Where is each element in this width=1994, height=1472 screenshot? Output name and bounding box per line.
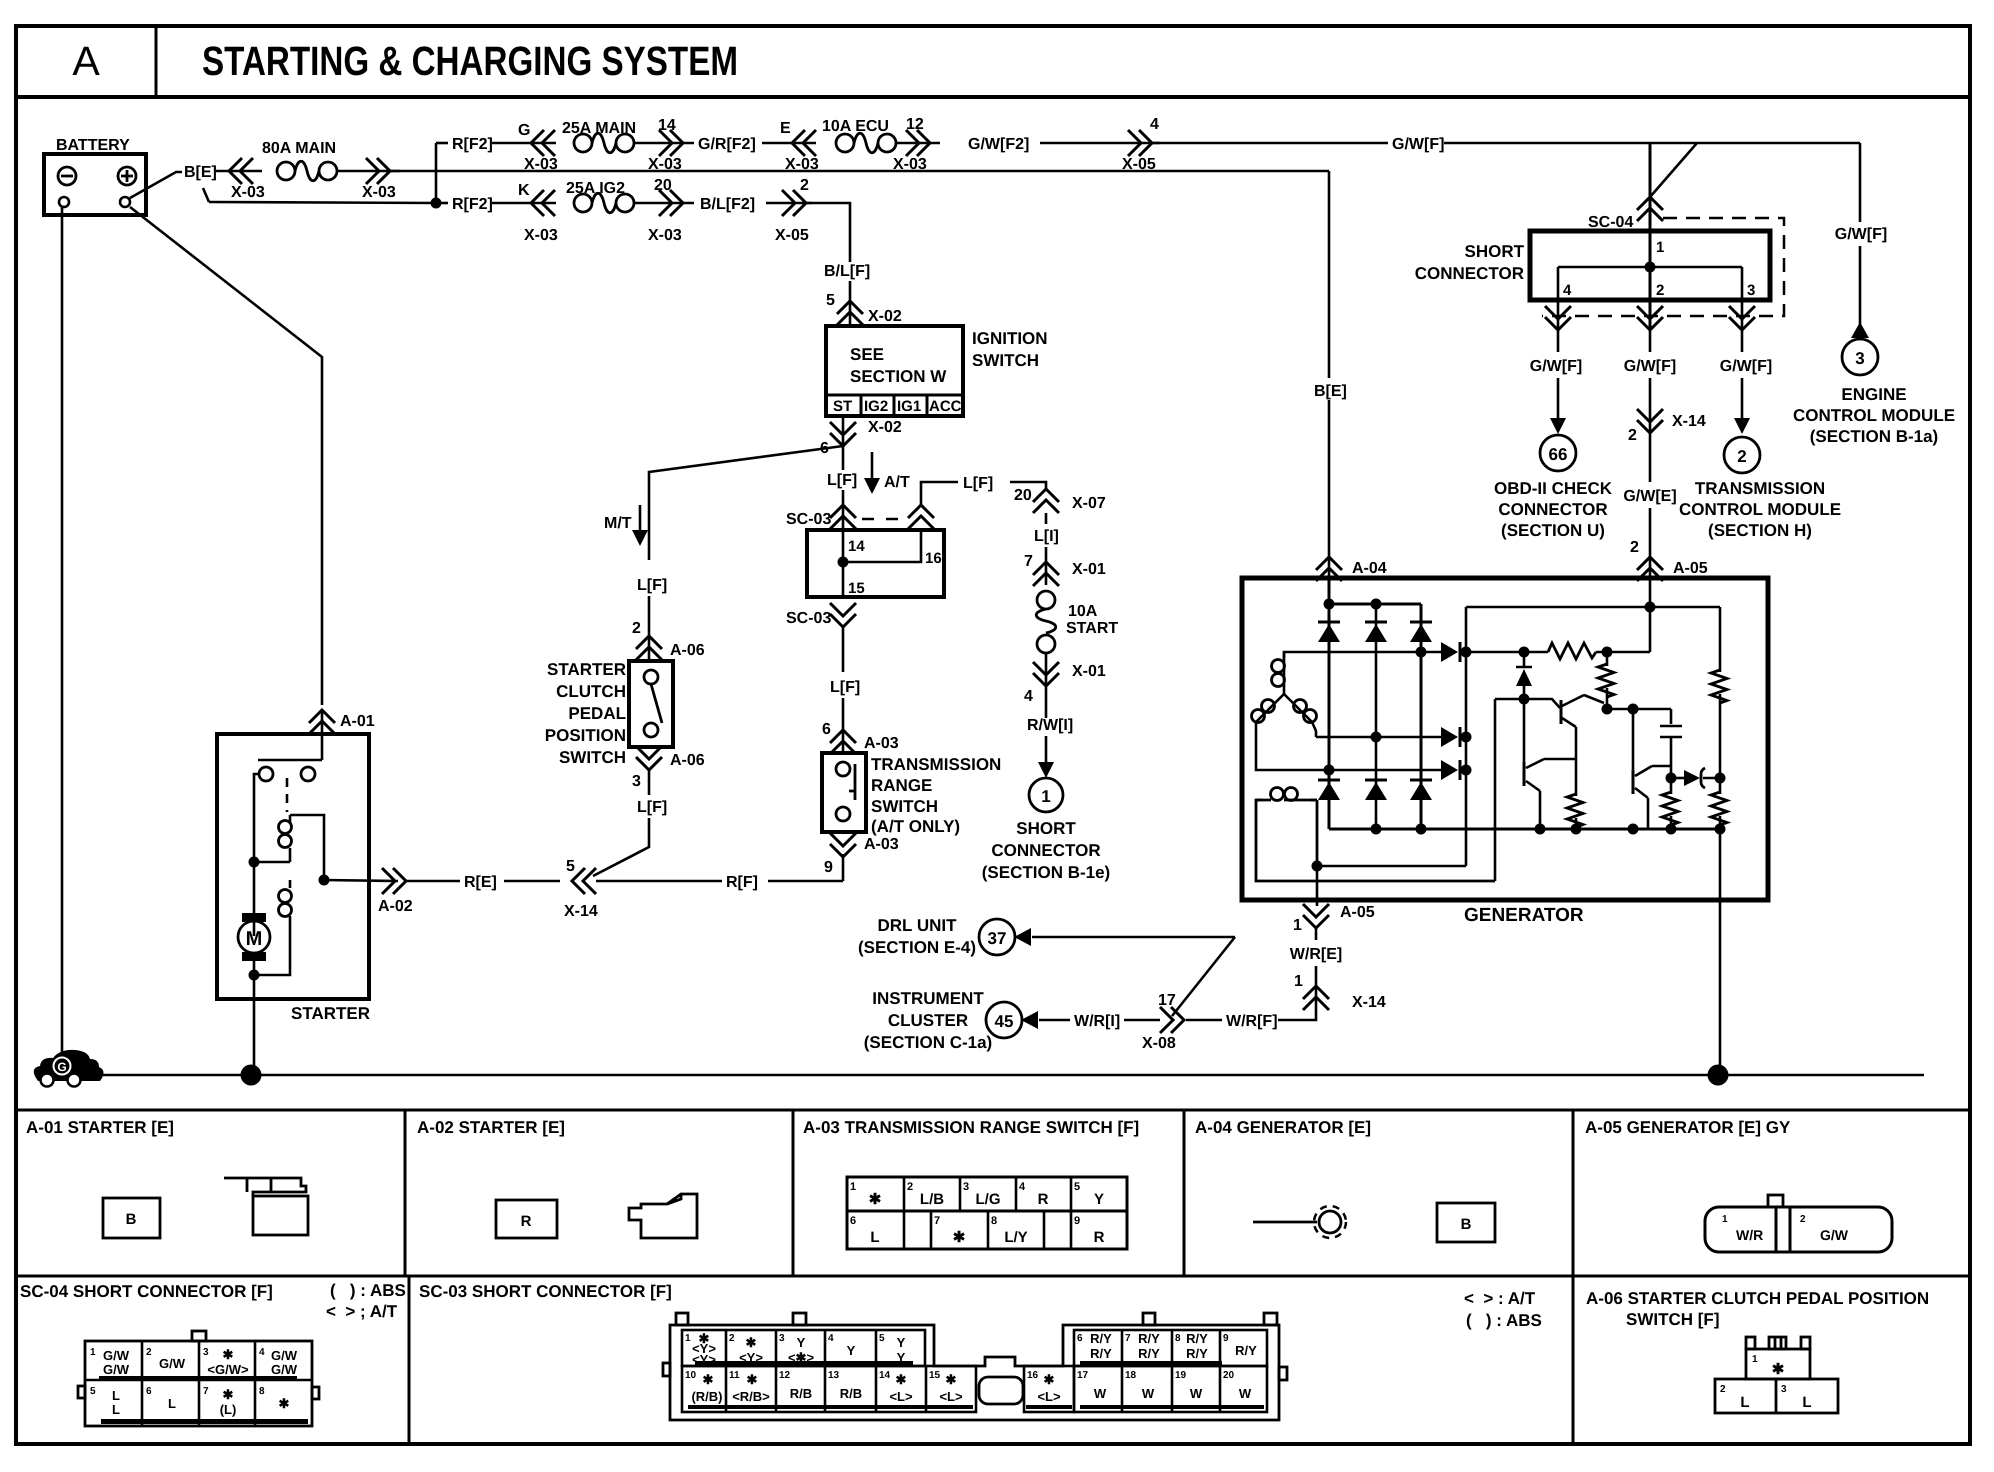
generator ground exit wire: [1719, 829, 1722, 1075]
svg-text:L[F]: L[F]: [827, 472, 857, 489]
svg-text:X-03: X-03: [524, 227, 558, 244]
A-03 pin table frame: [847, 1177, 1127, 1249]
svg-text:X-07: X-07: [1072, 495, 1106, 512]
svg-text:16: 16: [925, 550, 942, 567]
ECM arrow: [1851, 322, 1869, 338]
svg-text:B: B: [1461, 1216, 1472, 1233]
wire L[I] to X-01: [1045, 547, 1048, 585]
wire A-05 to W/R[E]: [1315, 928, 1318, 940]
svg-text:14: 14: [879, 1370, 891, 1381]
junction zener top: [1519, 647, 1530, 658]
junction zener bottom: [1519, 694, 1530, 705]
svg-text:G/W: G/W: [103, 1348, 130, 1363]
svg-text:X-01: X-01: [1072, 561, 1106, 578]
svg-text:W/R: W/R: [1736, 1227, 1763, 1243]
svg-text:( ) : ABS: ( ) : ABS: [330, 1281, 406, 1300]
wire row2 to K chevron: [492, 202, 556, 205]
svg-text:3: 3: [1855, 349, 1864, 368]
A-03 row2 cells: [904, 1211, 1071, 1249]
svg-text:12: 12: [779, 1370, 791, 1381]
diode V output: [1441, 727, 1460, 747]
rotor field coil loop: [1256, 800, 1495, 881]
svg-text:START: START: [1066, 620, 1118, 637]
SC-03 left block row2: [682, 1366, 976, 1412]
svg-text:X-14: X-14: [1352, 994, 1386, 1011]
svg-text:14: 14: [848, 538, 865, 555]
T2 emitter wire: [1575, 727, 1578, 796]
connector A-06 chevron 2: [636, 636, 662, 660]
svg-text:X-03: X-03: [648, 156, 682, 173]
junction V node: [1461, 732, 1472, 743]
junction T3 emitter bus: [1628, 824, 1639, 835]
svg-text:✱: ✱: [869, 1191, 882, 1208]
wire fuse to chevron: [337, 170, 400, 173]
svg-text:R/Y: R/Y: [1186, 1346, 1208, 1361]
svg-text:R/B: R/B: [790, 1386, 812, 1401]
svg-text:PEDAL: PEDAL: [568, 704, 626, 723]
svg-text:BATTERY: BATTERY: [56, 137, 130, 154]
svg-text:1: 1: [850, 1181, 856, 1193]
wire W/R[I] to cluster arrow: [1039, 1019, 1070, 1022]
SC-04 pin2 wire: [1649, 267, 1652, 330]
A-01 terminal B box: [103, 1198, 160, 1238]
transmission range switch box: [822, 753, 866, 832]
svg-text:G/W[F]: G/W[F]: [1624, 358, 1676, 375]
starter contact bar: [258, 759, 322, 762]
junction T4 emitter bus: [1535, 824, 1546, 835]
title bar divider: [16, 95, 1970, 99]
footer column A-05: [1572, 1110, 1575, 1276]
zener diode Z1: [1516, 652, 1532, 667]
connector A-05 chevron 1: [1303, 904, 1329, 928]
A-06 connector bottom row: [1715, 1379, 1838, 1413]
connector SC-03 lower chevron: [830, 603, 856, 627]
branch diagonal to DRL line: [1172, 937, 1235, 1016]
A/T arrow: [871, 452, 874, 480]
connector A-04 chevron: [1316, 557, 1342, 581]
footer row2 column SC-03: [408, 1276, 411, 1444]
connector X-03 chevron 14: [659, 130, 683, 156]
svg-text:19: 19: [1175, 1370, 1187, 1381]
SC-04 row1 heavy underline: [99, 1376, 297, 1381]
circled 3 engine control module: [1842, 339, 1878, 375]
svg-text:R/Y: R/Y: [1138, 1346, 1160, 1361]
svg-text:G/W[F2]: G/W[F2]: [968, 136, 1029, 153]
svg-text:6: 6: [146, 1386, 152, 1397]
svg-text:( ) : ABS: ( ) : ABS: [1466, 1311, 1542, 1330]
svg-text:L: L: [1740, 1394, 1749, 1411]
wire row1 to G chevron: [492, 142, 556, 145]
connector A-06 chevron lower: [636, 746, 662, 770]
svg-text:SECTION W: SECTION W: [850, 367, 947, 386]
svg-text:66: 66: [1549, 445, 1568, 464]
field regulator loop wire: [1494, 699, 1497, 881]
junction bottom bus col3: [1416, 824, 1427, 835]
A-03 row1 dividers: [904, 1177, 1071, 1211]
T4 emitter wire: [1539, 791, 1542, 829]
diode top col1: [1318, 622, 1340, 642]
svg-text:E: E: [780, 120, 791, 137]
junction rail A-05: [1645, 602, 1656, 613]
svg-text:✱: ✱: [1044, 1372, 1055, 1387]
connector X-01 chevron 4: [1033, 662, 1059, 686]
wire pin3 to TCM arrow: [1741, 378, 1744, 420]
SC-03 left block row1: [682, 1330, 925, 1366]
resistor cap branch: [1662, 792, 1678, 825]
wire to A-06 chevron: [648, 596, 651, 661]
SC-03 connector outline: [670, 1325, 1279, 1420]
svg-text:3: 3: [963, 1181, 969, 1193]
wire X-07 to L[I]: [1045, 513, 1048, 524]
SC-04 pin4 wire: [1557, 267, 1560, 330]
connector X-03 chevron K: [531, 190, 555, 216]
SC-03 internal link to pin16: [843, 530, 921, 562]
battery minus terminal symbol: [58, 167, 76, 185]
resistor R1 horizontal: [1548, 643, 1596, 659]
svg-text:L: L: [112, 1402, 120, 1417]
wire pin9 down to R[F] line: [842, 854, 845, 881]
svg-text:A-05: A-05: [1340, 904, 1375, 921]
wire to R/W[I]: [1045, 686, 1048, 718]
svg-text:✱: ✱: [953, 1229, 966, 1246]
svg-text:10: 10: [685, 1370, 697, 1381]
svg-text:RANGE: RANGE: [871, 776, 932, 795]
clutch switch lower contact: [644, 723, 658, 737]
junction T3 base: [1628, 704, 1639, 715]
svg-text:B/L[F2]: B/L[F2]: [700, 196, 755, 213]
regulator supply rail: [1466, 607, 1720, 652]
junction T2 emitter bus: [1571, 824, 1582, 835]
arrow to short connector: [1045, 736, 1048, 764]
A-02 terminal R box: [496, 1200, 557, 1238]
svg-text:Y: Y: [797, 1335, 806, 1350]
footer row divider: [16, 1275, 1970, 1278]
svg-text:(SECTION C-1a): (SECTION C-1a): [864, 1033, 992, 1052]
A-01 connector drawing: [224, 1178, 306, 1196]
svg-text:A-03: A-03: [864, 836, 899, 853]
connector X-14 chevron 5: [572, 868, 596, 894]
svg-text:G/W[F]: G/W[F]: [1530, 358, 1582, 375]
stator Y winding coils: [1283, 652, 1286, 694]
svg-text:SWITCH [F]: SWITCH [F]: [1626, 1310, 1719, 1329]
svg-text:G/W: G/W: [103, 1362, 130, 1377]
starter coil1 bottom stub: [289, 848, 292, 862]
stator phase W line: [1256, 722, 1441, 770]
SC-03 heavy underlines: [695, 1361, 913, 1365]
svg-text:7: 7: [1024, 553, 1033, 570]
junction dot rows: [431, 198, 442, 209]
svg-text:2: 2: [1800, 1214, 1806, 1225]
svg-text:A-01 STARTER [E]: A-01 STARTER [E]: [26, 1118, 174, 1137]
wire pin3 down: [1741, 330, 1744, 352]
starter coil2 bottom link: [254, 916, 290, 975]
wire A/T main drop: [842, 446, 845, 470]
base wire to T2: [1495, 698, 1524, 701]
connector X-02 chevron 5: [837, 301, 863, 325]
starter A-02 output wire: [324, 880, 398, 881]
svg-text:16: 16: [1027, 1370, 1039, 1381]
wire row B battery feed: [209, 202, 436, 203]
svg-text:10A: 10A: [1068, 603, 1098, 620]
svg-text:L[F]: L[F]: [830, 679, 860, 696]
svg-text:<L>: <L>: [939, 1389, 963, 1404]
svg-text:9: 9: [824, 859, 833, 876]
svg-text:6: 6: [822, 721, 831, 738]
svg-text:W/R[E]: W/R[E]: [1290, 946, 1342, 963]
svg-text:Y: Y: [897, 1335, 906, 1350]
branch diagonal to SC-04: [1650, 143, 1697, 197]
svg-text:G/W: G/W: [271, 1362, 298, 1377]
wire row A to B[E] turn-down: [390, 170, 1329, 173]
svg-text:B: B: [126, 1211, 137, 1228]
connector X-03 chevron after 80A fuse: [366, 158, 390, 184]
wire to X-05 chevron 2: [766, 202, 812, 205]
svg-text:5: 5: [879, 1333, 885, 1344]
fuse 10A ECU: [836, 133, 896, 153]
circled 45 instrument cluster: [986, 1002, 1022, 1038]
fuse 80A MAIN: [277, 161, 337, 181]
svg-text:SC-03: SC-03: [786, 511, 831, 528]
wire drop to SC-03 pin14: [842, 490, 845, 530]
wire X-14 to G/W[E]: [1649, 437, 1652, 482]
svg-text:7: 7: [934, 1215, 940, 1227]
tail from X-03 chevron to row B: [203, 188, 209, 202]
stator phase V line: [1316, 736, 1441, 739]
wire ST pin down: [842, 416, 845, 446]
svg-text:X-01: X-01: [1072, 663, 1106, 680]
wire ECM drop: [1859, 143, 1862, 222]
svg-text:<R/B>: <R/B>: [732, 1389, 770, 1404]
starter coil1 top link: [290, 815, 324, 880]
SC-04 short connector box: [1530, 231, 1770, 300]
wire X-05 to G/W[F] label: [1152, 142, 1388, 145]
diode top col3: [1410, 622, 1432, 642]
svg-text:W: W: [1239, 1386, 1252, 1401]
svg-text:STARTER: STARTER: [547, 660, 626, 679]
car ground symbol G: [34, 1050, 104, 1081]
svg-text:9: 9: [1223, 1333, 1229, 1344]
wire G/W[F] east run: [1444, 142, 1860, 145]
fuse 10A START: [1036, 591, 1056, 653]
wire B[E] row A: [216, 170, 262, 173]
svg-text:SWITCH: SWITCH: [559, 748, 626, 767]
SC-03 outline tabs: [676, 1313, 688, 1325]
svg-text:1: 1: [1041, 787, 1050, 806]
wire fuse to X-01 lower: [1045, 653, 1048, 684]
clutch switch upper contact: [644, 670, 658, 684]
bracket vertical joining R[F2] rows: [435, 143, 438, 203]
svg-text:12: 12: [906, 116, 924, 133]
generator bottom bus: [1329, 828, 1720, 831]
junction W node: [1461, 765, 1472, 776]
battery plus terminal symbol: [118, 167, 136, 185]
svg-text:7: 7: [203, 1386, 209, 1397]
svg-text:X-05: X-05: [1122, 156, 1156, 173]
svg-text:14: 14: [658, 117, 676, 134]
svg-text:X-03: X-03: [893, 156, 927, 173]
svg-text:1: 1: [685, 1333, 691, 1344]
svg-text:G/W: G/W: [271, 1348, 298, 1363]
svg-text:(SECTION U): (SECTION U): [1501, 521, 1605, 540]
wire row2 stub: [436, 202, 448, 205]
SC-03 internal junction: [838, 557, 849, 568]
svg-text:L[F]: L[F]: [637, 577, 667, 594]
junction top bus col1: [1324, 599, 1335, 610]
T3 base wire: [1632, 709, 1635, 770]
svg-text:SWITCH: SWITCH: [972, 351, 1039, 370]
svg-text:4: 4: [1024, 688, 1033, 705]
svg-text:(A/T ONLY): (A/T ONLY): [871, 817, 960, 836]
fuse 25A MAIN: [574, 133, 634, 153]
svg-text:A-02: A-02: [378, 898, 413, 915]
output chain resistor upper: [1719, 607, 1722, 672]
SC-04 grid: [85, 1341, 312, 1426]
starter solenoid coil2: [279, 890, 292, 903]
svg-text:20: 20: [1223, 1370, 1235, 1381]
wire row2 corner to ignition: [806, 203, 850, 262]
wire to X-07 corner: [1010, 482, 1046, 489]
svg-text:7: 7: [1125, 1333, 1131, 1344]
wire into starter: [321, 710, 324, 760]
starter dashed link: [286, 778, 289, 812]
wire R[F] to range switch: [768, 880, 843, 883]
svg-text:R: R: [1038, 1191, 1049, 1208]
diode top col2: [1365, 622, 1387, 642]
wire fuse to chevron 12: [896, 142, 940, 145]
starter junction A-02: [319, 875, 330, 886]
wire pin4 down: [1557, 330, 1560, 352]
svg-text:20: 20: [1014, 487, 1032, 504]
svg-text:TRANSMISSION: TRANSMISSION: [1695, 479, 1825, 498]
svg-text:ACC: ACC: [929, 398, 962, 415]
range switch lower contact: [836, 807, 850, 821]
svg-text:CONNECTOR: CONNECTOR: [1415, 264, 1524, 283]
footer column A-02: [404, 1110, 407, 1276]
label B[E] on drop: [1310, 378, 1352, 400]
dashes between SC-03 chevrons: [862, 518, 898, 521]
starter coil2 top stub: [289, 880, 292, 888]
svg-text:A-06 STARTER CLUTCH PEDAL POSI: A-06 STARTER CLUTCH PEDAL POSITION: [1586, 1289, 1929, 1308]
starter junction coil1: [249, 857, 260, 868]
svg-text:45: 45: [995, 1012, 1014, 1031]
transistor T2: [1560, 700, 1563, 724]
A-05 pin2 internal wire: [1649, 578, 1652, 652]
range switch upper contact: [836, 762, 850, 776]
wire R[E] to X-14: [504, 880, 560, 883]
starter ground wire: [253, 961, 256, 1075]
svg-text:CONTROL MODULE: CONTROL MODULE: [1793, 406, 1955, 425]
clutch switch blade: [651, 684, 662, 723]
ground junction generator: [1708, 1065, 1729, 1086]
svg-text:K: K: [518, 182, 530, 199]
starter left branch wire: [254, 774, 259, 936]
svg-text:<G/W>: <G/W>: [207, 1362, 249, 1377]
svg-text:R/B: R/B: [840, 1386, 862, 1401]
footer top divider: [16, 1109, 1970, 1112]
svg-text:X-08: X-08: [1142, 1035, 1176, 1052]
wire W/R[F] to X-08: [1186, 1019, 1222, 1022]
svg-text:R[E]: R[E]: [464, 874, 497, 891]
svg-text:3: 3: [779, 1333, 785, 1344]
svg-text:X-02: X-02: [868, 419, 902, 436]
SC-04 internal junction: [1645, 262, 1656, 273]
resistor T2 emitter: [1567, 794, 1583, 827]
svg-text:✱: ✱: [703, 1372, 714, 1387]
svg-text:X-05: X-05: [775, 227, 809, 244]
connector SC-03 chevron pin14: [830, 505, 856, 529]
svg-text:OBD-II CHECK: OBD-II CHECK: [1494, 479, 1613, 498]
circled 66 OBD-II check connector: [1540, 435, 1576, 471]
SC-04 connector outline: [85, 1341, 312, 1426]
connector X-07 chevron 20: [1033, 489, 1059, 513]
wire X-08 to W/R[I]: [1124, 1019, 1160, 1022]
connector A-02 chevron: [382, 868, 406, 894]
wire field to A-05 pin1: [1316, 866, 1319, 906]
M/T arrow: [639, 505, 642, 532]
svg-text:25A MAIN: 25A MAIN: [562, 120, 636, 137]
svg-text:Y: Y: [1094, 1191, 1104, 1208]
svg-text:X-03: X-03: [362, 184, 396, 201]
svg-text:80A MAIN: 80A MAIN: [262, 140, 336, 157]
capacitor C1: [1660, 709, 1682, 778]
connector A-05 chevron 2: [1637, 557, 1663, 581]
svg-text:(R/B): (R/B): [691, 1389, 722, 1404]
svg-text:2: 2: [1628, 427, 1637, 444]
stator phase U line: [1284, 652, 1441, 658]
svg-text:1: 1: [1752, 1354, 1758, 1365]
wire fuse to chevron 20: [634, 202, 694, 205]
svg-text:10A ECU: 10A ECU: [822, 118, 889, 135]
footer column A-04: [1183, 1110, 1186, 1276]
svg-text:1: 1: [1294, 973, 1303, 990]
svg-text:ENGINE: ENGINE: [1841, 385, 1906, 404]
SC-03 right block: [1074, 1330, 1267, 1366]
svg-text:G/W[F]: G/W[F]: [1392, 136, 1444, 153]
wire X-14 to R[F]: [596, 880, 722, 883]
svg-text:1: 1: [1293, 917, 1302, 934]
transistor T3: [1632, 770, 1635, 794]
svg-text:L[I]: L[I]: [1034, 528, 1059, 545]
svg-text:X-03: X-03: [648, 227, 682, 244]
connector X-03 chevron G: [531, 130, 555, 156]
A-04 terminal B box: [1437, 1203, 1495, 1242]
svg-text:X-03: X-03: [785, 156, 819, 173]
svg-text:4: 4: [828, 1333, 834, 1344]
svg-text:A-05 GENERATOR [E] GY: A-05 GENERATOR [E] GY: [1585, 1118, 1791, 1137]
svg-text:X-03: X-03: [231, 184, 265, 201]
svg-text:L[F]: L[F]: [637, 799, 667, 816]
svg-text:X-03: X-03: [524, 156, 558, 173]
svg-text:1: 1: [1656, 239, 1664, 256]
generator top bus: [1329, 603, 1421, 606]
svg-text:R/W[I]: R/W[I]: [1027, 717, 1073, 734]
transistor T4: [1523, 699, 1526, 762]
svg-text:X-14: X-14: [564, 903, 598, 920]
svg-text:9: 9: [1074, 1215, 1080, 1227]
svg-text:17: 17: [1077, 1370, 1089, 1381]
battery: [44, 154, 146, 215]
junction output node: [1715, 773, 1726, 784]
svg-text:B[E]: B[E]: [1314, 383, 1347, 400]
wire A-02 to R[E]: [406, 880, 460, 883]
svg-text:✱: ✱: [946, 1372, 957, 1387]
wire SC-03 to L[F]: [842, 627, 845, 672]
ignition switch box: [826, 326, 963, 416]
svg-text:(SECTION B-1a): (SECTION B-1a): [1810, 427, 1938, 446]
junction U col3: [1416, 647, 1427, 658]
starter box: [217, 734, 369, 999]
svg-text:3: 3: [632, 773, 641, 790]
